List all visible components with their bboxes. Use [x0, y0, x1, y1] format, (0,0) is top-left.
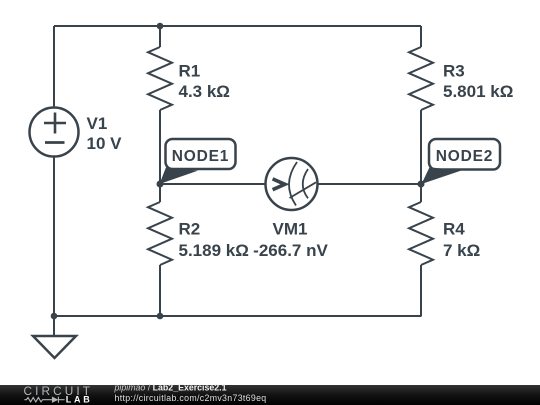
svg-text:5.189 kΩ: 5.189 kΩ: [179, 241, 249, 260]
svg-text:4.3 kΩ: 4.3 kΩ: [179, 82, 230, 101]
svg-text:R4: R4: [443, 220, 465, 239]
svg-text:-266.7 nV: -266.7 nV: [253, 241, 328, 260]
svg-text:7 kΩ: 7 kΩ: [443, 241, 480, 260]
svg-text:NODE2: NODE2: [436, 148, 493, 165]
svg-text:R2: R2: [179, 220, 201, 239]
svg-text:NODE1: NODE1: [172, 148, 229, 165]
svg-text:R1: R1: [179, 62, 201, 81]
svg-text:V1: V1: [87, 114, 108, 133]
svg-text:pipimao / Lab2_Exercise2.1: pipimao / Lab2_Exercise2.1: [114, 383, 227, 393]
svg-text:10 V: 10 V: [87, 134, 123, 153]
svg-text:VM1: VM1: [273, 220, 308, 239]
svg-text:LAB: LAB: [66, 395, 93, 405]
svg-text:R3: R3: [443, 62, 465, 81]
svg-text:http://circuitlab.com/c2mv3n73: http://circuitlab.com/c2mv3n73t69eq: [115, 393, 267, 403]
svg-text:5.801 kΩ: 5.801 kΩ: [443, 82, 513, 101]
